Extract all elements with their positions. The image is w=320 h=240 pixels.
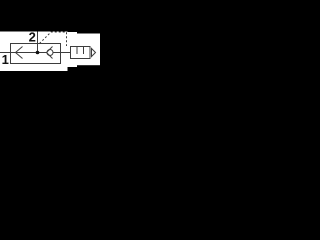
background — [0, 0, 100, 100]
wire to silencer — [61, 52, 71, 54]
wire port 1 — [0, 52, 11, 54]
silencer baffle 2 — [83, 47, 85, 55]
valve body — [11, 44, 61, 64]
exhaust triangle — [92, 49, 96, 57]
white canvas area (valve object bbox) — [0, 32, 68, 72]
svg-text:2: 2 — [29, 29, 36, 44]
silencer body — [71, 47, 91, 59]
dashed association line — [40, 32, 67, 46]
arrow head (free flow left) — [16, 47, 23, 59]
white canvas area (mid bbox) — [68, 32, 78, 67]
svg-text:1: 1 — [2, 52, 9, 67]
check valve ball — [47, 50, 53, 56]
check valve seat — [47, 47, 53, 53]
white canvas area (silencer object bbox) — [77, 34, 100, 66]
junction node — [36, 51, 40, 55]
internal flow line — [11, 52, 61, 54]
port 2 line — [37, 32, 39, 53]
silencer baffle 1 — [76, 47, 78, 55]
